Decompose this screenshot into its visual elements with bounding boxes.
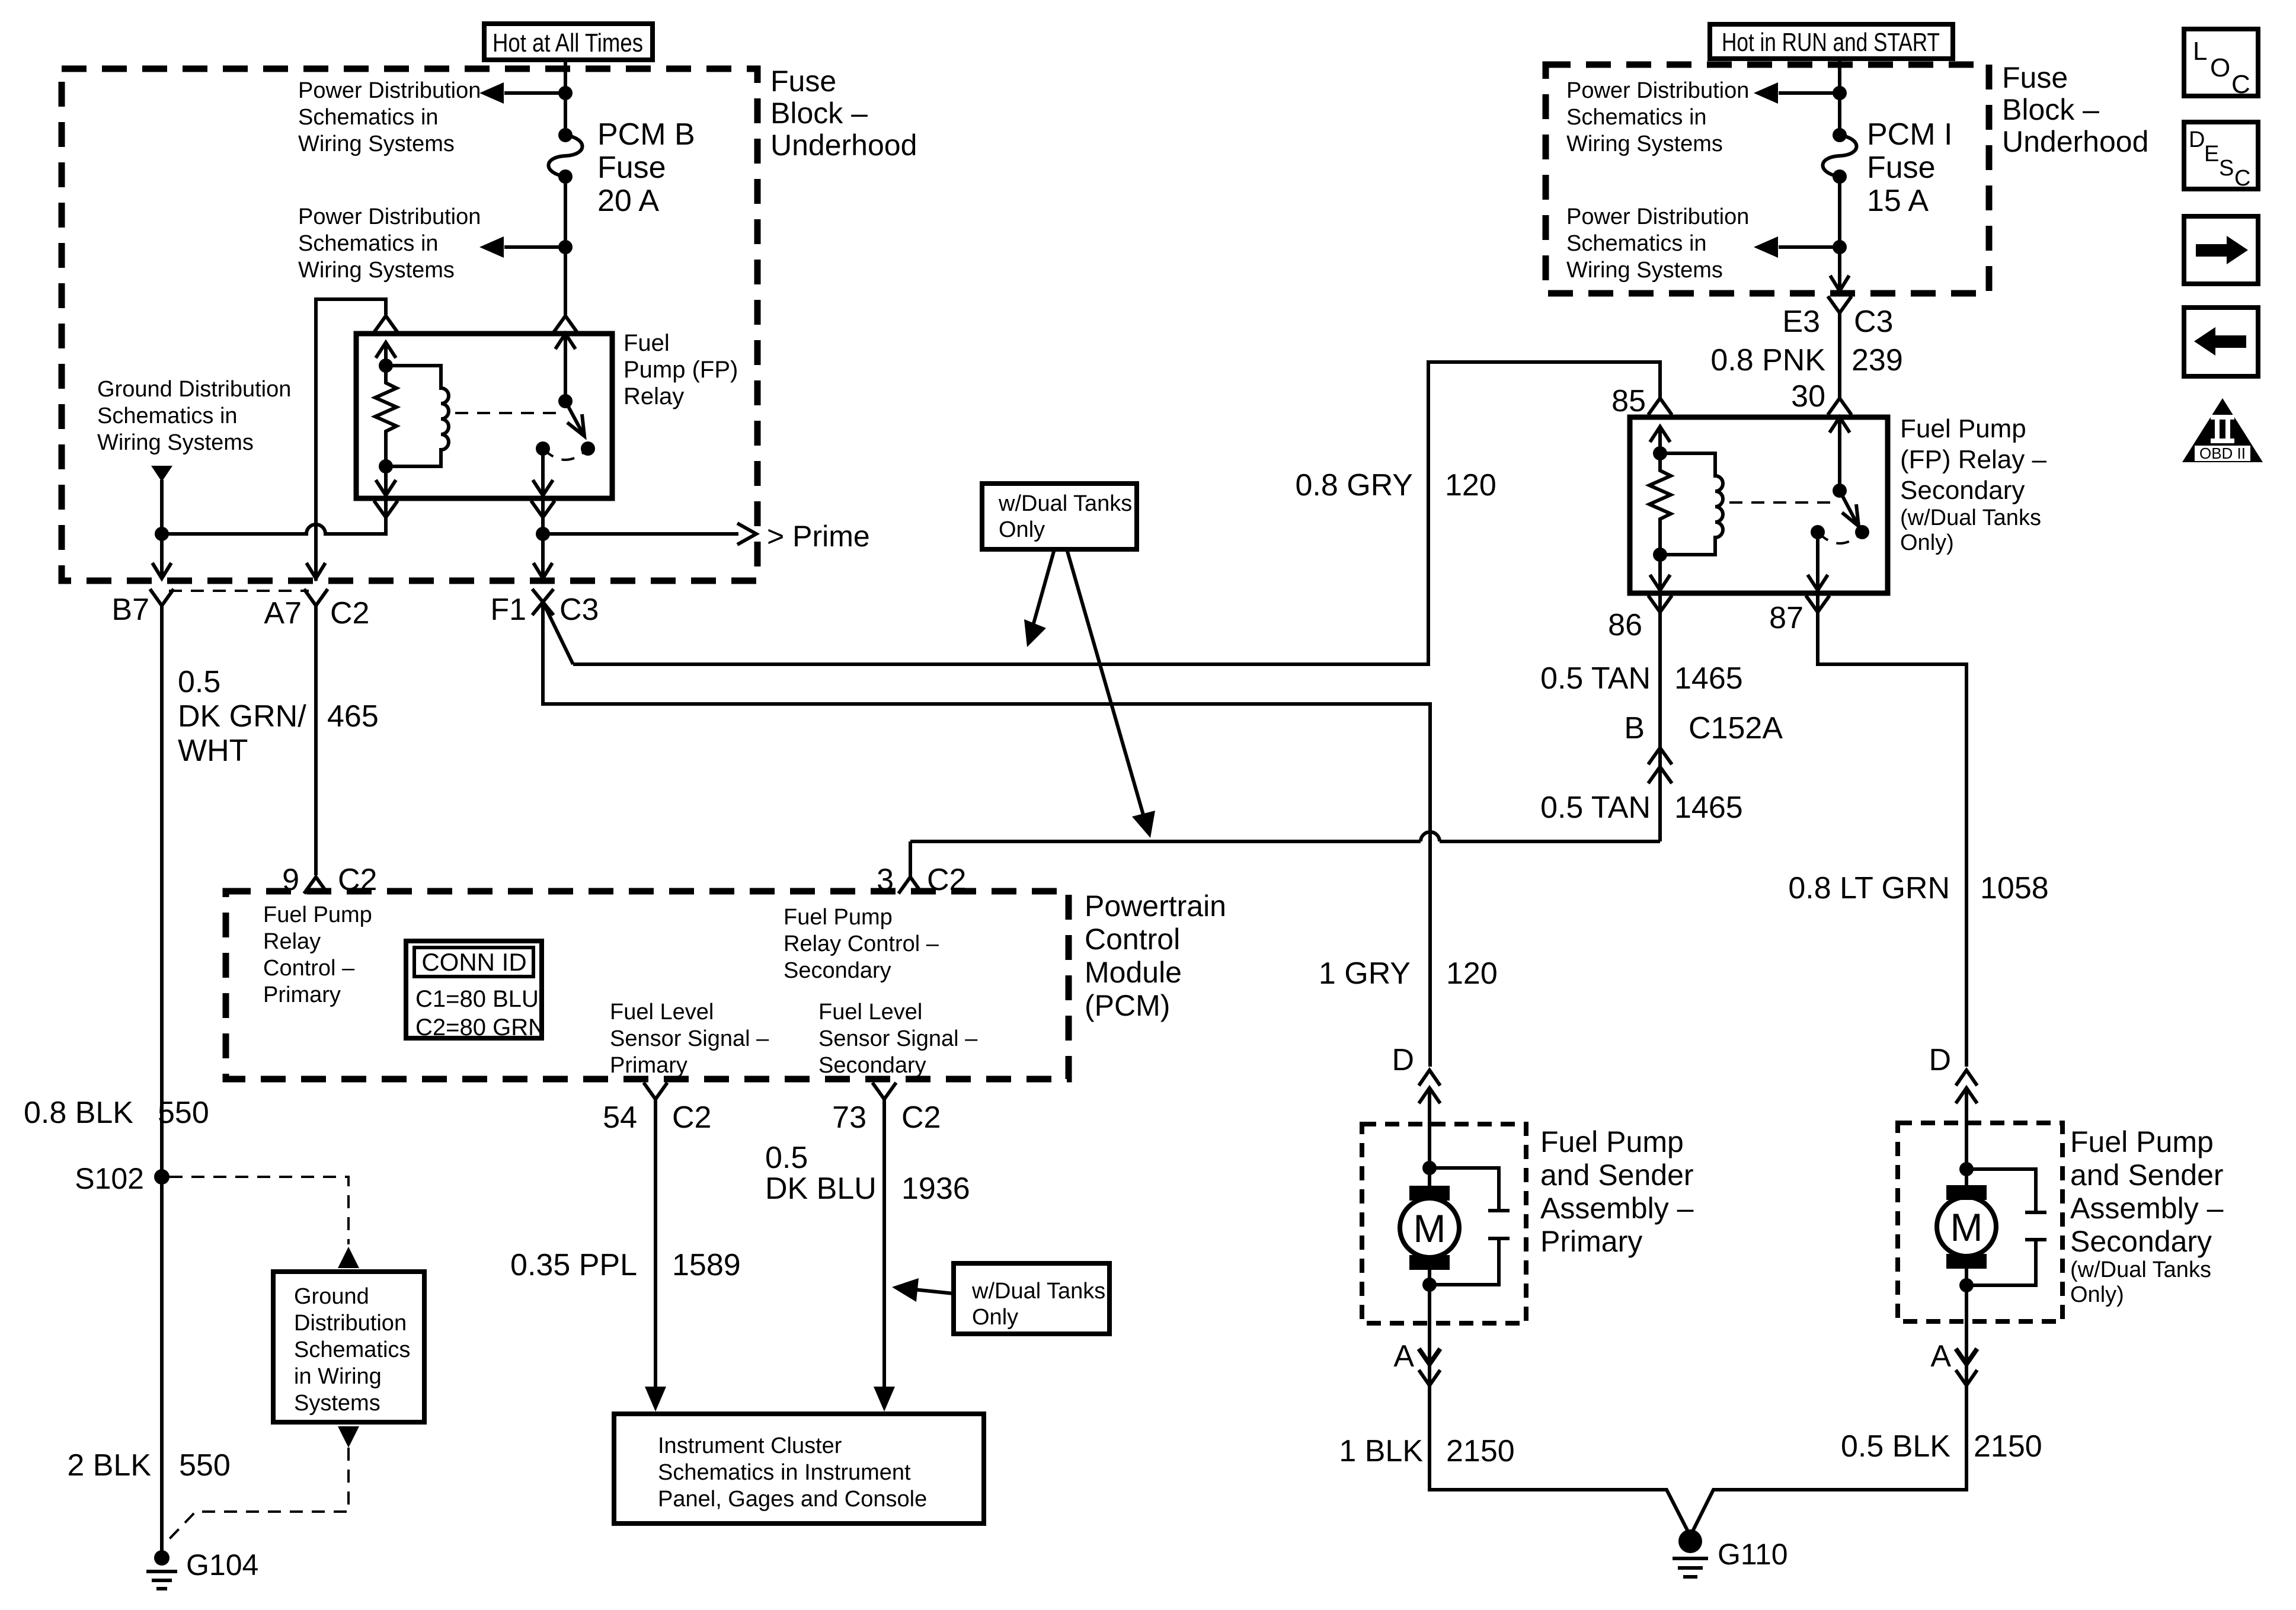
label: Fuel Pump Relay Control - Secondary	[784, 905, 939, 983]
PCM: Powertrain Control Module dashed box	[226, 891, 1069, 1079]
svg-text:1589: 1589	[672, 1248, 741, 1282]
wire: relay output down to F1	[541, 498, 545, 557]
fuse block underhood (right) dashed box	[1546, 65, 1989, 293]
CONN ID table	[406, 941, 545, 1041]
svg-text:D: D	[1929, 1043, 1951, 1077]
sender element (secondary)	[1966, 1169, 2046, 1285]
svg-text:2150: 2150	[1446, 1434, 1515, 1468]
svg-text:O: O	[2210, 53, 2230, 82]
node: secondary coil top	[1653, 446, 1667, 460]
connector housing dashed tie B7-A7	[169, 590, 309, 592]
svg-text:Hot in RUN and START: Hot in RUN and START	[1722, 28, 1940, 57]
svg-text:Block –: Block –	[770, 97, 868, 130]
svg-text:DK BLU: DK BLU	[765, 1172, 877, 1206]
svg-text:S102: S102	[75, 1162, 144, 1195]
svg-text:G104: G104	[186, 1548, 258, 1582]
wire: battery feed from Hot at All Times down to fuse	[564, 60, 567, 135]
label: Power Distribution Schematics in Wiring Systems (right upper)	[1566, 78, 1749, 156]
svg-text:1936: 1936	[901, 1172, 970, 1206]
wire: D into primary pump	[1428, 1088, 1431, 1168]
wire label: 1 BLK 2150	[1339, 1434, 1514, 1468]
arrowhead into instrument cluster (right)	[874, 1387, 895, 1411]
svg-text:B7: B7	[111, 593, 149, 627]
svg-text:465: 465	[327, 699, 379, 734]
wire: B7 to S102	[160, 606, 164, 1170]
svg-text:Module: Module	[1085, 956, 1182, 989]
connector B7 (C2)	[150, 589, 174, 606]
svg-text:in Wiring: in Wiring	[294, 1364, 382, 1389]
wire: F1 to relay secondary pin 85 (0.8 GRY 120)	[573, 362, 1660, 664]
svg-text:A7: A7	[264, 596, 302, 630]
arrow from middle callout to GRY wire	[1024, 549, 1054, 647]
svg-text:(FP) Relay –: (FP) Relay –	[1900, 445, 2046, 474]
edge arrows: wires exiting fuse block bottom	[152, 556, 552, 578]
svg-text:Secondary: Secondary	[2070, 1225, 2212, 1258]
wire label: 0.35 PPL 1589	[510, 1248, 741, 1282]
svg-text:and Sender: and Sender	[1540, 1158, 1694, 1192]
wire: pin 86 down to PCM pin 3 run	[1658, 593, 1662, 841]
relay actuation dashed link	[455, 412, 556, 414]
wire: A7 branch up-over to relay coil pin	[316, 299, 386, 581]
svg-text:A: A	[1393, 1339, 1414, 1374]
svg-text:Fuel Pump: Fuel Pump	[1900, 414, 2026, 443]
wire: fuse output down	[1838, 177, 1841, 270]
svg-text:1465: 1465	[1674, 661, 1743, 696]
svg-text:Wiring Systems: Wiring Systems	[298, 258, 455, 283]
label: Fuel Pump and Sender Assembly - Primary	[1540, 1125, 1694, 1258]
node: switch pivot	[558, 394, 573, 408]
svg-text:Instrument Cluster: Instrument Cluster	[658, 1433, 842, 1458]
svg-text:C2: C2	[901, 1100, 941, 1135]
svg-text:87: 87	[1769, 601, 1803, 635]
svg-text:L: L	[2193, 37, 2207, 66]
ground G104	[146, 1550, 177, 1589]
svg-text:Ground: Ground	[294, 1284, 369, 1309]
svg-text:1465: 1465	[1674, 790, 1743, 825]
svg-text:Power Distribution: Power Distribution	[298, 78, 481, 103]
node: secondary switch pivot	[1833, 484, 1847, 498]
wire label: 0.5 TAN 1465 (lower)	[1540, 790, 1743, 825]
svg-text:C3: C3	[559, 593, 599, 627]
ground G110	[1673, 1529, 1708, 1577]
svg-text:Fuel Pump: Fuel Pump	[263, 902, 372, 927]
ground reference arrow into B7 wire	[151, 466, 172, 482]
wire: relay control secondary run to PCM pin 3 (with hop)	[1440, 840, 1660, 843]
svg-text:S: S	[2219, 156, 2234, 181]
svg-text:Primary: Primary	[1540, 1225, 1642, 1258]
svg-text:and Sender: and Sender	[2070, 1158, 2224, 1192]
fuse block underhood (left) dashed box	[62, 69, 757, 581]
svg-text:Only): Only)	[1900, 530, 1954, 555]
svg-text:Secondary: Secondary	[1900, 476, 2025, 505]
svg-text:Schematics in: Schematics in	[298, 231, 439, 256]
wire label: 0.8 GRY 120	[1296, 468, 1496, 502]
wire label: 0.5 DK GRN/WHT	[178, 665, 306, 768]
svg-text:Control –: Control –	[263, 956, 355, 981]
resistor (relay coil suppression)	[375, 366, 396, 466]
svg-text:E: E	[2204, 142, 2219, 167]
arrow from middle callout to TAN wire	[1067, 549, 1155, 838]
dashed box: Fuel Pump and Sender Assembly - Primary	[1362, 1124, 1526, 1323]
svg-text:1 GRY: 1 GRY	[1319, 956, 1411, 991]
coil winding (secondary relay)	[1660, 453, 1723, 555]
svg-text:0.8 BLK: 0.8 BLK	[24, 1096, 133, 1130]
icon: back arrow box	[2184, 308, 2258, 376]
arrowhead: prime exits fuse block	[737, 523, 756, 545]
connector A (secondary pump) arrow and chevron	[1930, 1339, 1977, 1385]
relay secondary switch common	[1830, 417, 1850, 491]
svg-text:D: D	[1392, 1043, 1414, 1077]
wire: fuel level sensor signal secondary down	[882, 1099, 886, 1388]
svg-text:Underhood: Underhood	[770, 129, 917, 162]
label: Fuse Block - Underhood (right)	[2002, 61, 2148, 158]
svg-text:˃ Prime: ˃ Prime	[767, 520, 870, 553]
svg-text:Fuel Level: Fuel Level	[818, 1000, 922, 1025]
wire: arrow to Power Distribution (right lower)	[1779, 245, 1840, 249]
connector chevron below relay coil pin	[374, 501, 398, 517]
wire: pump return down	[1428, 1285, 1431, 1361]
svg-text:w/Dual Tanks: w/Dual Tanks	[971, 1279, 1105, 1304]
dashed throw arc	[543, 449, 588, 460]
arrowhead down out of ground distribution box	[338, 1426, 359, 1448]
svg-text:0.5 TAN: 0.5 TAN	[1540, 790, 1651, 825]
callout: w/Dual Tanks Only (lower)	[954, 1263, 1109, 1334]
node: coil bottom	[379, 459, 393, 473]
svg-text:Fuse: Fuse	[2002, 61, 2068, 94]
svg-text:A: A	[1930, 1339, 1951, 1374]
connector D (secondary pump) double chevron	[1929, 1043, 1977, 1103]
connector B C152A double chevron	[1648, 748, 1672, 783]
svg-text:WHT: WHT	[178, 734, 248, 768]
wire: arrow to Power Distribution (right upper)	[1779, 91, 1840, 95]
svg-text:54: 54	[603, 1100, 637, 1135]
relay: Fuel Pump (FP) Relay box	[356, 334, 612, 498]
connector chevron into relay pin 30 (left relay)	[554, 316, 577, 332]
wire: F1 down branch to primary pump	[543, 602, 1430, 1067]
svg-text:Fuse: Fuse	[597, 151, 666, 185]
fuse PCM B 20A symbol	[549, 128, 583, 184]
wire label: 0.8 PNK 239	[1710, 343, 1902, 377]
motor M (primary fuel pump)	[1400, 1168, 1459, 1285]
relay switch arm with arrowhead	[565, 401, 584, 436]
wire: primary pump ground run	[1430, 1364, 1690, 1536]
box: Ground Distribution Schematics in Wiring Systems	[273, 1272, 424, 1422]
svg-text:86: 86	[1608, 608, 1642, 642]
svg-text:0.5: 0.5	[765, 1141, 808, 1175]
connector D (primary pump) double chevron	[1392, 1043, 1440, 1103]
svg-text:239: 239	[1851, 343, 1903, 377]
svg-text:85: 85	[1611, 384, 1646, 418]
svg-text:(PCM): (PCM)	[1085, 989, 1170, 1022]
wire label: 0.8 LT GRN 1058	[1788, 871, 2048, 905]
relay secondary output pin internal arrow (down)	[1808, 532, 1828, 590]
svg-text:C3: C3	[1854, 305, 1893, 339]
svg-text:Sensor Signal –: Sensor Signal –	[610, 1026, 769, 1051]
svg-text:15 A: 15 A	[1867, 184, 1929, 218]
dashed box: Fuel Pump and Sender Assembly - Secondary	[1898, 1123, 2062, 1321]
svg-text:C: C	[2231, 70, 2250, 99]
svg-text:Underhood: Underhood	[2002, 125, 2148, 158]
relay: Fuel Pump (FP) Relay - Secondary box	[1630, 417, 1888, 593]
relay coil pin internal arrow (up)	[376, 343, 396, 367]
label: Hot in RUN and START box	[1710, 24, 1953, 59]
svg-text:Power Distribution: Power Distribution	[1566, 204, 1749, 229]
svg-text:Wiring Systems: Wiring Systems	[1566, 258, 1723, 283]
svg-text:Only: Only	[999, 517, 1045, 542]
wire: pin 3 stub up to relay control secondary run	[909, 841, 912, 877]
wire: secondary pump return down	[1965, 1285, 1968, 1361]
label: Fuel Pump Relay Control - Primary	[263, 902, 372, 1007]
connector A (primary pump) arrow and chevron	[1393, 1339, 1440, 1385]
label: Fuel Pump (FP) Relay - Secondary (w/Dual Tanks Only)	[1900, 414, 2046, 555]
svg-text:0.8 LT GRN: 0.8 LT GRN	[1788, 871, 1950, 905]
node: splice to power distribution (lower)	[558, 240, 573, 254]
wire label: 0.8 BLK 550	[24, 1096, 209, 1130]
svg-text:30: 30	[1791, 379, 1825, 414]
svg-text:0.8 PNK: 0.8 PNK	[1710, 343, 1825, 377]
svg-text:C152A: C152A	[1689, 711, 1783, 745]
relay output pin internal arrow (down)	[533, 449, 553, 495]
connector E3/C3	[1828, 296, 1851, 313]
svg-text:2 BLK: 2 BLK	[67, 1448, 151, 1483]
node: splice to power distribution (upper)	[558, 86, 573, 100]
svg-text:Primary: Primary	[610, 1053, 687, 1078]
connector chevron below secondary coil pin 86	[1648, 596, 1672, 612]
svg-text:Assembly –: Assembly –	[1540, 1192, 1694, 1225]
sender element (primary)	[1430, 1168, 1510, 1285]
svg-text:Wiring Systems: Wiring Systems	[298, 132, 455, 156]
wire: ignition feed down to fuse	[1838, 59, 1841, 135]
connector chevron into relay secondary pin 30	[1828, 398, 1851, 415]
svg-text:C2: C2	[330, 596, 369, 630]
wire: D into secondary pump	[1965, 1088, 1968, 1169]
svg-text:Schematics: Schematics	[294, 1337, 410, 1362]
svg-text:PCM B: PCM B	[597, 117, 695, 152]
label: Fuel Level Sensor Signal - Primary	[610, 1000, 769, 1078]
svg-text:Schematics in: Schematics in	[97, 404, 238, 428]
svg-text:E3: E3	[1782, 305, 1820, 339]
svg-text:Power Distribution: Power Distribution	[298, 204, 481, 229]
svg-text:Panel, Gages and Console: Panel, Gages and Console	[658, 1487, 927, 1512]
label: PCM B Fuse 20 A	[597, 117, 695, 218]
svg-text:Schematics in: Schematics in	[298, 105, 439, 130]
label: Fuel Pump and Sender Assembly - Secondary (w/Dual Tanks Only)	[2070, 1125, 2224, 1307]
resistor (secondary relay)	[1649, 453, 1671, 555]
svg-text:Relay: Relay	[623, 383, 684, 409]
wire label: 2 BLK 550	[67, 1448, 230, 1483]
svg-text:Systems: Systems	[294, 1391, 380, 1416]
label: Hot at All Times box	[484, 24, 653, 60]
svg-text:PCM I: PCM I	[1867, 117, 1952, 152]
node: primary pump feed splice	[1422, 1161, 1437, 1175]
svg-text:Schematics in: Schematics in	[1566, 231, 1707, 256]
svg-text:Only): Only)	[2070, 1282, 2124, 1307]
svg-text:(w/Dual Tanks: (w/Dual Tanks	[2070, 1257, 2211, 1282]
svg-text:Fuse: Fuse	[1867, 151, 1936, 185]
label: Powertrain Control Module (PCM)	[1085, 889, 1226, 1022]
svg-text:Only: Only	[972, 1305, 1018, 1330]
relay secondary actuation dashed link	[1729, 501, 1830, 504]
relay secondary coil pin internal arrow (up)	[1650, 427, 1670, 454]
svg-text:Control: Control	[1085, 923, 1180, 956]
wire: relay coil pin to ground splice	[162, 498, 386, 534]
svg-text:0.35 PPL: 0.35 PPL	[510, 1248, 637, 1282]
svg-text:Schematics in: Schematics in	[1566, 105, 1707, 130]
relay secondary coil pin internal arrow (down)	[1650, 555, 1670, 590]
svg-text:550: 550	[179, 1448, 231, 1483]
connector pin 9 C2 chevron	[304, 877, 328, 894]
label: Ground Distribution Schematics in Wiring Systems (top left)	[97, 377, 291, 455]
svg-text:1 BLK: 1 BLK	[1339, 1434, 1423, 1468]
node: coil top	[379, 359, 393, 373]
connector pin 73 C2	[872, 1083, 896, 1099]
node: secondary pump feed splice	[1959, 1162, 1974, 1176]
svg-text:Pump (FP): Pump (FP)	[623, 357, 738, 383]
connector A7 (C2)	[304, 589, 328, 606]
relay secondary switch arm with arrowhead	[1840, 491, 1859, 526]
node: secondary pump return splice	[1959, 1278, 1974, 1292]
node: secondary coil bottom	[1653, 548, 1667, 562]
connector pin 54 C2	[644, 1083, 667, 1099]
icon: LOC box	[2184, 29, 2258, 99]
svg-text:Secondary: Secondary	[784, 958, 891, 983]
connector chevron below relay output pin	[531, 501, 555, 517]
wire: fuel level sensor signal primary down	[654, 1099, 657, 1388]
svg-text:C1=80 BLU: C1=80 BLU	[415, 986, 539, 1012]
motor M (secondary fuel pump)	[1937, 1169, 1996, 1285]
wire: arrow to Power Distribution (upper left)	[504, 91, 565, 95]
svg-text:CONN ID: CONN ID	[421, 948, 526, 976]
svg-text:0.5 TAN: 0.5 TAN	[1540, 661, 1651, 696]
svg-text:C2: C2	[927, 863, 966, 897]
svg-text:20 A: 20 A	[597, 184, 659, 218]
svg-text:Wiring Systems: Wiring Systems	[97, 430, 254, 455]
svg-text:Fuel Pump: Fuel Pump	[2070, 1125, 2214, 1158]
svg-text:73: 73	[832, 1100, 866, 1135]
svg-text:Relay: Relay	[263, 929, 321, 954]
dashed throw arc (secondary)	[1818, 532, 1862, 543]
icon: DESC box	[2184, 122, 2258, 191]
svg-text:Sensor Signal –: Sensor Signal –	[818, 1026, 978, 1051]
connector pin 3 C2 chevron	[898, 877, 922, 894]
svg-text:0.8 GRY: 0.8 GRY	[1296, 468, 1413, 502]
svg-text:Block –: Block –	[2002, 93, 2099, 126]
svg-text:C2: C2	[672, 1100, 711, 1135]
svg-text:Schematics in Instrument: Schematics in Instrument	[658, 1460, 911, 1485]
connector chevron into relay coil pin (left relay)	[374, 316, 398, 332]
coil winding	[386, 366, 449, 466]
wire: S102 to G104	[160, 1177, 164, 1553]
svg-text:Fuel Level: Fuel Level	[610, 1000, 714, 1025]
svg-text:0.5 BLK: 0.5 BLK	[1841, 1429, 1950, 1464]
svg-text:2150: 2150	[1974, 1429, 2042, 1464]
wire: arrow to Power Distribution (lower left)	[504, 245, 565, 249]
dashed link: S102 to ground distribution note	[170, 1177, 348, 1244]
wire: E3 to relay secondary pin 30	[1838, 313, 1841, 398]
svg-text:Fuel: Fuel	[623, 330, 670, 356]
svg-text:(w/Dual Tanks: (w/Dual Tanks	[1900, 505, 2041, 530]
svg-text:120: 120	[1446, 956, 1498, 991]
svg-text:F1: F1	[490, 593, 526, 627]
wire label: 1 GRY 120	[1319, 956, 1498, 991]
svg-text:M: M	[1414, 1206, 1446, 1250]
label: Fuel Pump (FP) Relay	[623, 330, 738, 409]
svg-text:Fuse: Fuse	[770, 65, 836, 98]
wire: A7 to PCM pin 9	[314, 606, 318, 875]
svg-text:Hot at All Times: Hot at All Times	[493, 28, 643, 57]
svg-text:B: B	[1624, 711, 1645, 745]
svg-text:3: 3	[877, 863, 894, 897]
dashed link: ground note to G104	[167, 1448, 348, 1542]
node: splice lower (right block)	[1833, 240, 1847, 254]
svg-text:DK GRN/: DK GRN/	[178, 699, 306, 734]
arrow from lower callout to 1936 wire	[892, 1278, 954, 1302]
edge arrow: wire exits right fuse block	[1830, 270, 1849, 291]
svg-text:Assembly –: Assembly –	[2070, 1192, 2224, 1225]
node: switch contact 87	[536, 441, 550, 456]
svg-text:Power Distribution: Power Distribution	[1566, 78, 1749, 103]
svg-text:0.5: 0.5	[178, 665, 220, 699]
svg-text:Wiring Systems: Wiring Systems	[1566, 132, 1723, 156]
wire: secondary pump ground run	[1690, 1364, 1966, 1536]
label: Fuse Block - Underhood (left)	[770, 65, 917, 162]
svg-text:Secondary: Secondary	[818, 1053, 926, 1078]
relay coil pin internal arrow (down)	[376, 466, 396, 495]
icon: forward arrow box	[2184, 216, 2258, 284]
connector chevron into relay secondary pin 85	[1648, 398, 1672, 415]
node: primary pump return splice	[1422, 1278, 1437, 1292]
svg-text:Distribution: Distribution	[294, 1311, 407, 1336]
svg-text:G110: G110	[1718, 1538, 1788, 1571]
wire label: 0.5 TAN 1465 (upper)	[1540, 661, 1743, 696]
svg-text:D: D	[2189, 127, 2205, 152]
arrowhead into instrument cluster (left)	[645, 1387, 666, 1411]
svg-text:Powertrain: Powertrain	[1085, 889, 1226, 923]
node: B7 splice with relay coil return	[155, 527, 169, 541]
svg-text:Primary: Primary	[263, 982, 341, 1007]
svg-text:w/Dual Tanks: w/Dual Tanks	[998, 491, 1132, 516]
node: prime splice	[536, 527, 550, 541]
label: Fuel Level Sensor Signal - Secondary	[818, 1000, 978, 1078]
svg-text:550: 550	[158, 1096, 209, 1130]
node: secondary contact NO	[1855, 525, 1869, 539]
svg-text:Relay Control –: Relay Control –	[784, 932, 939, 956]
connector F1 (C3)	[532, 589, 554, 615]
svg-text:Fuel Pump: Fuel Pump	[1540, 1125, 1684, 1158]
svg-text:1058: 1058	[1980, 871, 2049, 905]
wire: F1 diagonal to relay secondary feed run	[543, 602, 573, 664]
fuse PCM I 15A symbol	[1823, 128, 1857, 184]
wire: pin 87 to secondary pump	[1818, 593, 1966, 1067]
svg-text:120: 120	[1445, 468, 1496, 502]
label: Power Distribution Schematics in Wiring Systems (right lower)	[1566, 204, 1749, 283]
label: Power Distribution Schematics in Wiring Systems (upper left)	[298, 78, 481, 156]
node: secondary contact 87	[1811, 525, 1825, 539]
node: splice S102	[154, 1169, 170, 1185]
node: switch contact NO	[581, 441, 595, 456]
wire: fuse output down	[564, 177, 567, 315]
wire: prime feed to right	[543, 532, 738, 536]
svg-text:Ground Distribution: Ground Distribution	[97, 377, 291, 402]
svg-text:Fuel Pump: Fuel Pump	[784, 905, 893, 930]
connector chevron below secondary output pin 87	[1806, 596, 1830, 612]
wire: B7 ground wire inside fuse block	[160, 480, 164, 557]
node: splice upper (right block)	[1833, 86, 1847, 100]
box: Instrument Cluster Schematics note	[614, 1414, 984, 1523]
relay switch common (pin 30 inside)	[555, 334, 575, 401]
svg-text:M: M	[1950, 1205, 1983, 1249]
wire label: 0.5 DK BLU 1936	[765, 1141, 970, 1206]
